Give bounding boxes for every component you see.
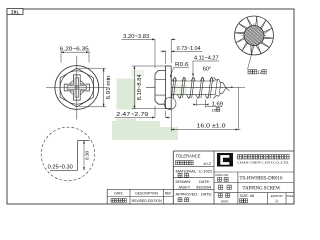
svg-text:60°: 60° <box>203 67 211 73</box>
svg-text:0.73~1.04: 0.73~1.04 <box>177 46 201 52</box>
svg-text:APPROVED:: APPROVED: <box>176 192 199 197</box>
svg-text:EDITION: EDITION <box>271 194 283 198</box>
svg-text:DWG.NO.: DWG.NO. <box>216 173 230 177</box>
svg-text:TOLERANCE: TOLERANCE <box>176 154 201 159</box>
svg-text:0.25~0.30: 0.25~0.30 <box>48 165 73 171</box>
svg-text:8.18~8.84: 8.18~8.84 <box>137 74 143 100</box>
svg-text:0.30: 0.30 <box>85 151 91 161</box>
svg-text:DATE: DATE <box>114 192 123 196</box>
svg-text:IDL: IDL <box>11 10 20 15</box>
svg-text:93/03/04: 93/03/04 <box>196 184 212 189</box>
svg-text:DATE:: DATE: <box>199 179 210 184</box>
svg-text:12: 12 <box>257 70 262 75</box>
svg-text:±0.2: ±0.2 <box>203 161 212 166</box>
svg-text:TAPPING SCREW: TAPPING SCREW <box>243 186 282 192</box>
svg-text:2.47~2.79: 2.47~2.79 <box>116 112 148 118</box>
svg-text:REVISED EDITION: REVISED EDITION <box>132 199 163 203</box>
svg-text:A: A <box>275 198 278 203</box>
svg-text:6.91 min: 6.91 min <box>106 75 112 99</box>
svg-text:JASKY: JASKY <box>178 184 191 189</box>
svg-text:6.20~6.35: 6.20~6.35 <box>60 47 89 53</box>
svg-text:16.0 ±1.0: 16.0 ±1.0 <box>197 124 226 130</box>
svg-text:m/m: m/m <box>221 200 228 204</box>
svg-text:SIZE: #8: SIZE: #8 <box>240 194 255 198</box>
svg-text:DATE:: DATE: <box>201 192 212 197</box>
svg-text:DRAWN:: DRAWN: <box>176 179 192 184</box>
svg-text:REF.: REF. <box>165 192 172 196</box>
svg-text:DESCRIPTION: DESCRIPTION <box>135 192 158 196</box>
svg-text:3.20~3.83: 3.20~3.83 <box>123 34 149 40</box>
svg-text:MATERIAL: C-1022: MATERIAL: C-1022 <box>176 169 213 173</box>
svg-text:PAGE: PAGE <box>287 195 294 198</box>
svg-text:TS-HWHBIS-DR016: TS-HWHBIS-DR016 <box>240 176 283 181</box>
